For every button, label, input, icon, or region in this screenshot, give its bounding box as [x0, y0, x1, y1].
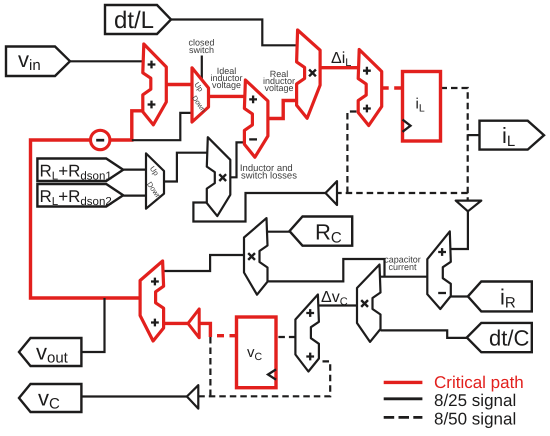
negate circle	[91, 130, 110, 149]
svg-text:8/50 signal: 8/50 signal	[434, 409, 516, 428]
wire vout tee	[81, 298, 104, 352]
mux M2 Rdson select	[145, 153, 164, 208]
label real inductor voltage	[263, 69, 295, 93]
wire junction to buffer	[199, 323, 210, 337]
label ideal inductor voltage	[210, 66, 242, 90]
multiplier M3 losses	[207, 137, 231, 216]
svg-text:dt/L: dt/L	[114, 7, 154, 34]
wire A1 to M1	[166, 83, 191, 86]
wire M1 to A2	[210, 95, 244, 98]
legend 8/50 line	[384, 416, 423, 419]
svg-text:8/25 signal: 8/25 signal	[434, 391, 516, 410]
wire M5 to A5	[164, 255, 245, 271]
wire Rdson2 to mux	[123, 195, 146, 197]
adder A4 capacitor current	[427, 231, 451, 309]
wire iL tag stub	[468, 134, 480, 136]
label inductor and switch losses	[240, 163, 297, 181]
wire closed switch select	[201, 56, 203, 81]
wire circle out to M1 down	[132, 113, 192, 140]
mux M1 closed switch	[190, 68, 208, 122]
tag dtC	[467, 323, 532, 352]
multiplier M2 real inductor voltage	[297, 30, 321, 118]
tag vout	[19, 338, 81, 366]
wire vC feedback bottom (8/50)	[198, 361, 330, 396]
wire dtL to M2	[171, 20, 298, 46]
adder A1	[143, 44, 167, 125]
wire A4 capacitor current to M4	[381, 276, 428, 278]
multiplier M4 delta vC	[357, 265, 381, 342]
register iL	[403, 72, 441, 142]
svg-text:voltage: voltage	[264, 83, 293, 93]
wire mux2 to M3	[164, 153, 207, 182]
register vC	[237, 317, 277, 388]
tag vC out	[19, 384, 81, 412]
adder A5 vout plus vC	[140, 261, 164, 341]
tag RC	[290, 217, 353, 246]
wire A7 to reg vC (8/50)	[276, 336, 295, 338]
wire A2 to M2	[268, 101, 297, 119]
wire vC tag	[81, 395, 186, 397]
wire circle out to A1	[110, 111, 143, 140]
wire iL feedback to A3 (8/50)	[347, 112, 358, 194]
label capacitor current	[384, 255, 421, 272]
svg-text:switch: switch	[189, 45, 214, 55]
wire buffer to A5	[164, 322, 188, 325]
wire M4 to A7 (delta vC)	[319, 304, 357, 306]
wire Rdson1 to mux	[123, 169, 146, 171]
buffer triangle vC tag	[187, 385, 198, 408]
adder A2	[244, 80, 268, 157]
buffer triangle vC red	[188, 309, 199, 338]
wire M2 to A3 (delta iL)	[320, 66, 358, 69]
buffer triangle iL feedback	[326, 181, 338, 205]
wire M3 to A2 minus	[230, 142, 244, 177]
svg-text:current: current	[388, 262, 417, 272]
legend critical path line	[384, 381, 423, 384]
tag RL Rdson2	[37, 184, 123, 207]
tag dtL	[105, 5, 171, 34]
svg-text:dt/C: dt/C	[489, 326, 529, 351]
adder A3	[358, 50, 382, 126]
wire reg iL out (8/50)	[441, 88, 468, 201]
svg-text:switch losses: switch losses	[241, 171, 297, 182]
adder A7 vC update	[295, 295, 319, 372]
wire A5 to negate circle	[31, 140, 141, 298]
wire dtC to M4	[381, 330, 467, 338]
tag iL out	[480, 121, 545, 150]
tag vin	[6, 47, 70, 77]
wire vin to A1	[70, 60, 143, 62]
svg-text:Critical path: Critical path	[434, 373, 524, 392]
multiplier M5 RC	[244, 218, 268, 295]
wire iL feedback (8/50)	[337, 192, 468, 194]
tag iR	[468, 282, 532, 312]
wire RC to M5	[268, 231, 290, 233]
wire A3 to reg iL (8/50)	[382, 86, 403, 89]
wire vC feedback down (8/50)	[209, 337, 211, 396]
truncate triangle down	[456, 201, 482, 212]
wire capacitor current to M5	[268, 259, 385, 281]
legend 8/25 line	[384, 397, 423, 400]
wire reg vC out (8/50)	[210, 334, 236, 337]
tag RL Rdson1	[37, 159, 123, 182]
wire iL feedback to M3	[193, 193, 325, 222]
wire trunc to A4	[451, 211, 468, 249]
wire iR to A4	[451, 295, 468, 297]
svg-text:voltage: voltage	[212, 80, 241, 90]
label closed switch	[188, 38, 214, 55]
